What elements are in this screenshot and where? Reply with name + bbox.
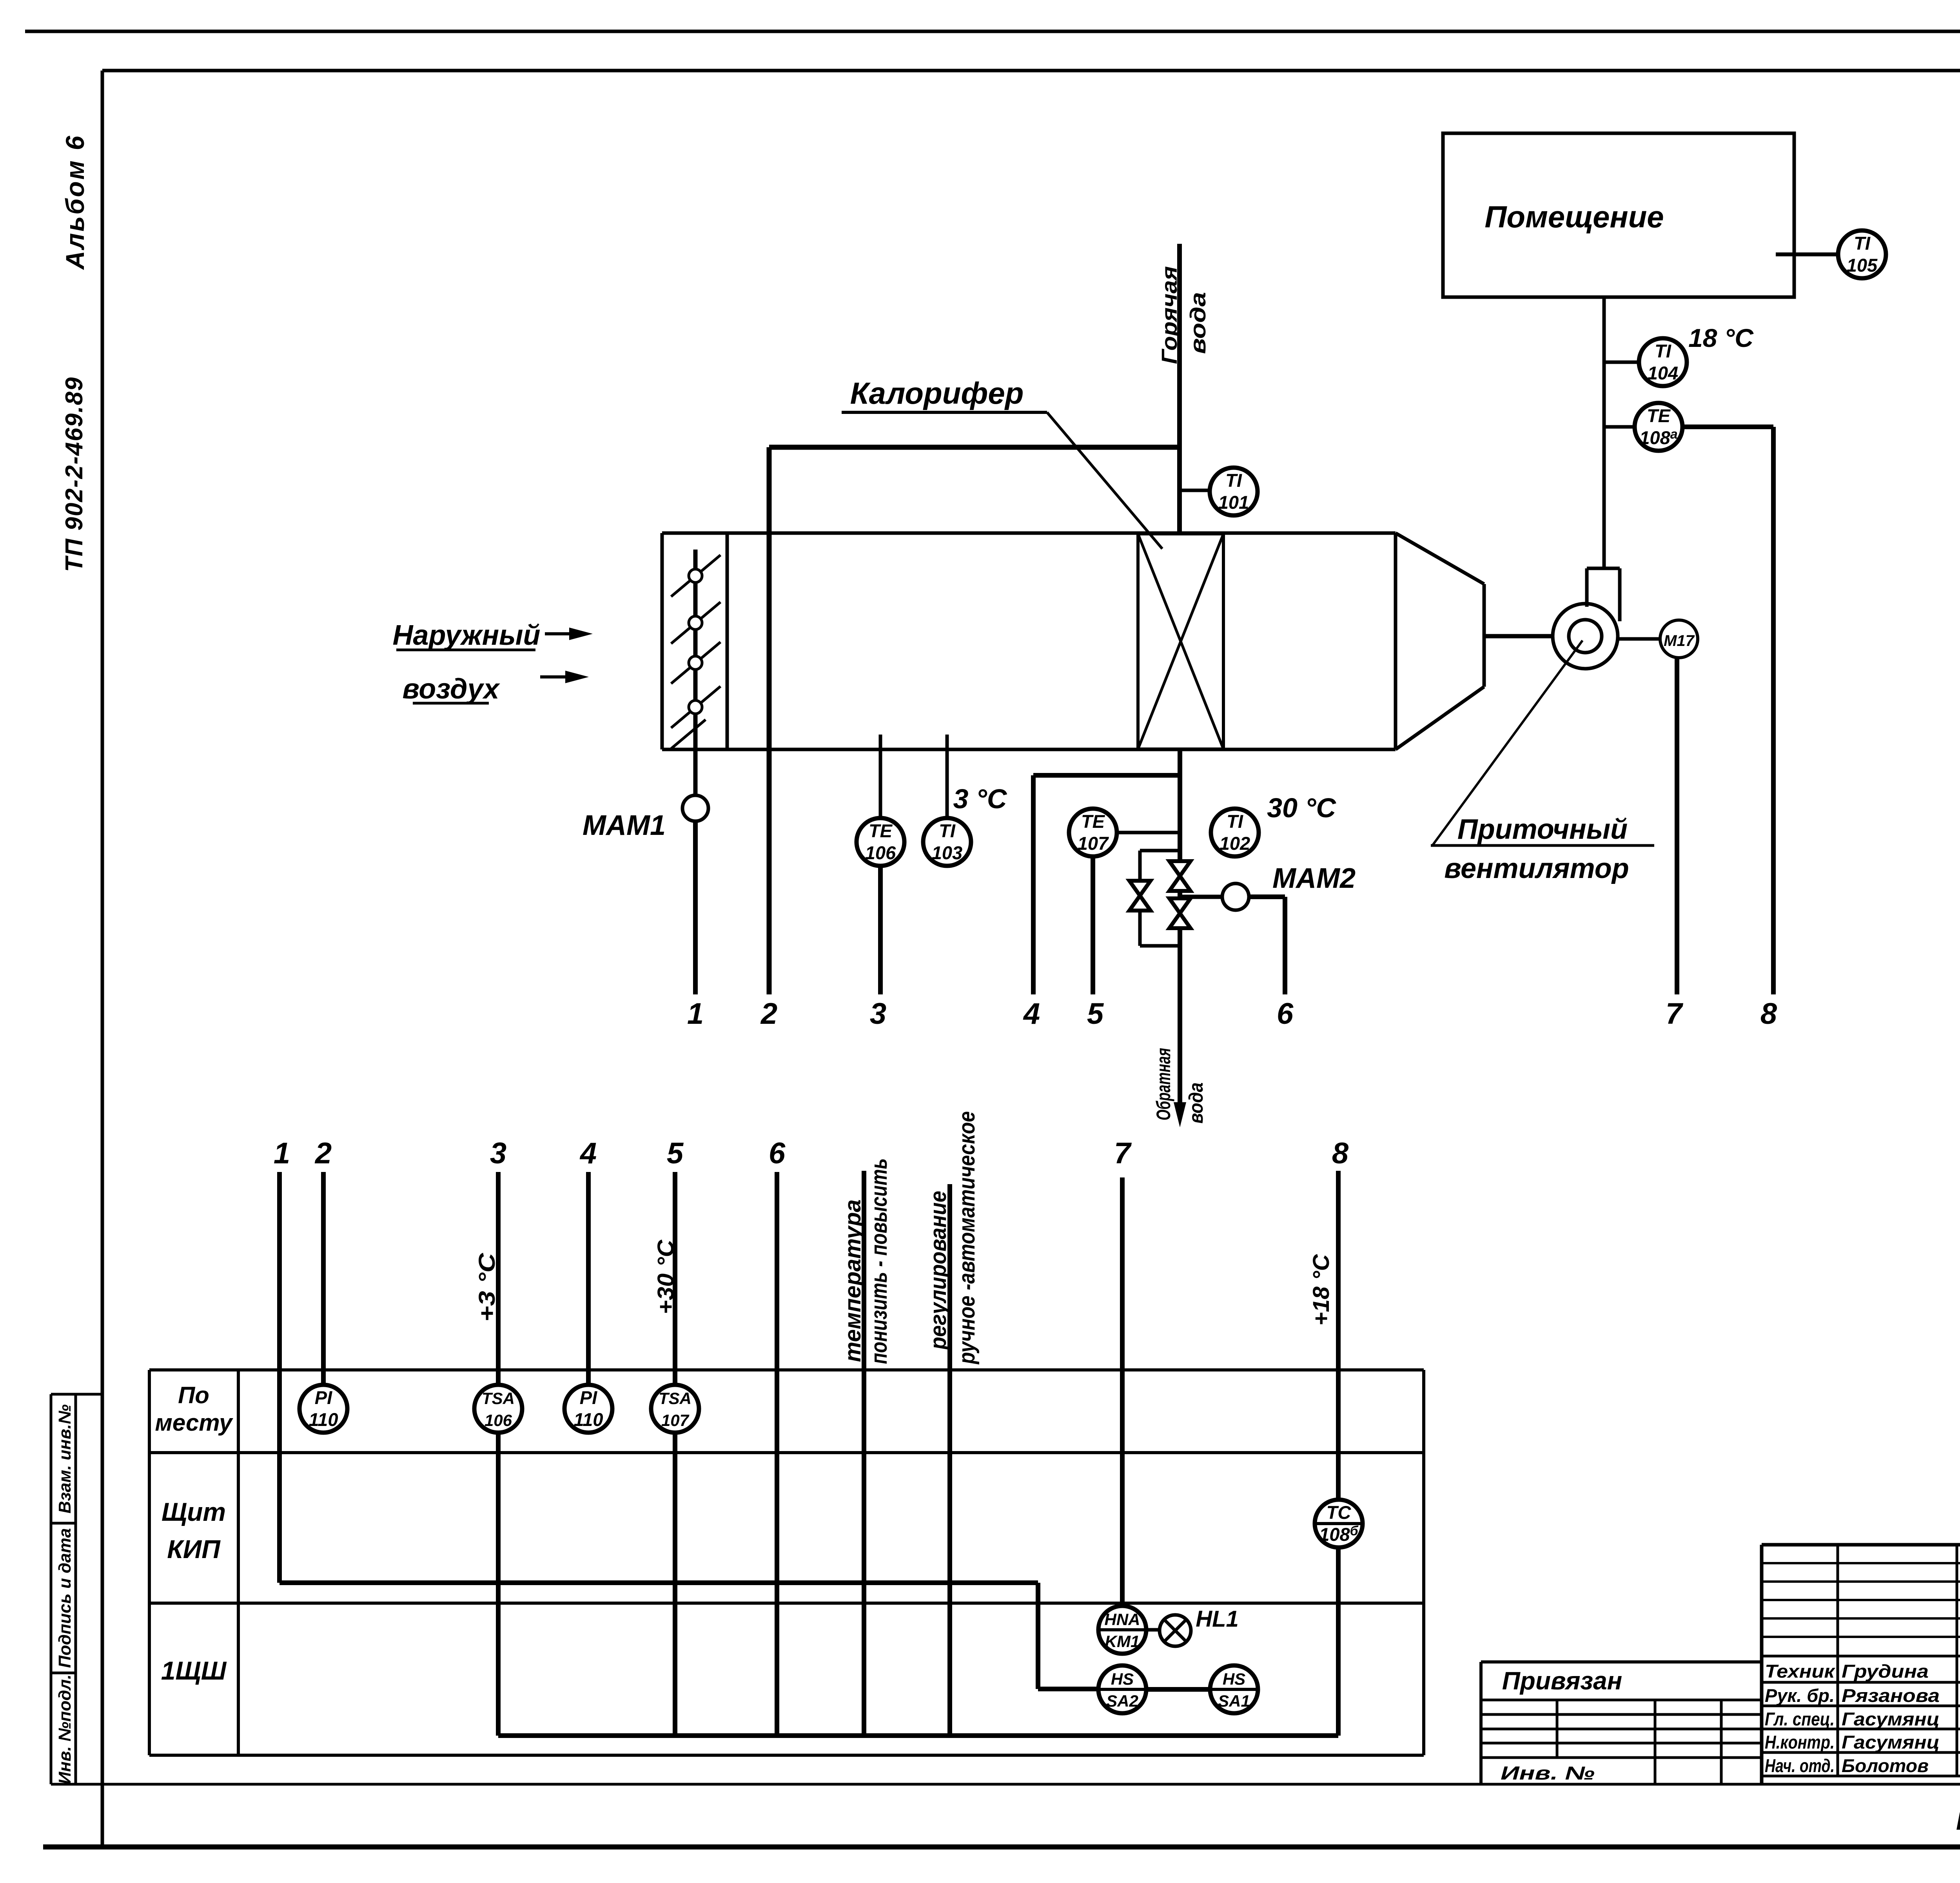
- svg-text:TI: TI: [1227, 811, 1243, 832]
- svg-text:107: 107: [661, 1411, 690, 1429]
- arrow: outside air lower: [540, 675, 565, 678]
- hot water pipe (Горячая вода): [1177, 244, 1182, 533]
- svg-text:КИП: КИП: [167, 1535, 221, 1564]
- fan (centrifugal): [1553, 568, 1620, 669]
- control valve lower (supply): [1169, 898, 1191, 928]
- svg-text:вода: вода: [1185, 292, 1210, 354]
- instrument TE106: [857, 818, 904, 866]
- instrument TI102: [1211, 809, 1259, 856]
- svg-text:SA1: SA1: [1218, 1692, 1250, 1710]
- svg-text:ручное -автоматическое: ручное -автоматическое: [954, 1111, 980, 1365]
- instrument TSA106: [474, 1385, 522, 1433]
- svg-text:Помещение: Помещение: [1485, 200, 1664, 234]
- svg-text:Наружный: Наружный: [392, 620, 540, 651]
- svg-text:4: 4: [1023, 997, 1040, 1030]
- svg-text:МАМ1: МАМ1: [583, 810, 666, 841]
- louver blade 3: [671, 642, 720, 684]
- svg-text:Н.контр.: Н.контр.: [1765, 1732, 1835, 1752]
- svg-text:6: 6: [1277, 997, 1294, 1030]
- svg-text:TSA: TSA: [659, 1389, 691, 1408]
- wire line 5 upper: [673, 1172, 677, 1385]
- louver blade 5 (partial): [671, 720, 706, 749]
- lower dividing rule: [51, 1783, 1960, 1786]
- svg-text:4: 4: [579, 1137, 597, 1170]
- svg-text:PI: PI: [580, 1387, 597, 1408]
- louver blade 1: [671, 555, 720, 597]
- svg-text:Техник: Техник: [1765, 1661, 1835, 1682]
- svg-text:106: 106: [865, 842, 896, 863]
- svg-text:110: 110: [574, 1409, 603, 1430]
- TI101 connector: [1180, 489, 1210, 492]
- line 3 drop from TE106: [878, 866, 883, 994]
- svg-text:Горячая: Горячая: [1157, 266, 1181, 364]
- duct outlet cone: [1394, 533, 1397, 749]
- svg-text:Привязан: Привязан: [1502, 1667, 1622, 1695]
- TI103 probe line: [946, 735, 949, 818]
- svg-text:KM1: KM1: [1105, 1632, 1140, 1651]
- svg-text:106: 106: [485, 1411, 512, 1429]
- svg-text:TSA: TSA: [482, 1389, 515, 1408]
- wire line 6: [775, 1172, 779, 1736]
- instrument TSA107: [651, 1385, 699, 1433]
- svg-text:2: 2: [760, 997, 777, 1030]
- svg-text:Нач. отд.: Нач. отд.: [1765, 1755, 1835, 1776]
- svg-text:8: 8: [1760, 997, 1777, 1030]
- svg-text:TE: TE: [1647, 405, 1671, 426]
- margin strip top: [51, 1393, 102, 1396]
- svg-text:5: 5: [667, 1137, 684, 1170]
- underline Наружный: [396, 649, 535, 651]
- instrument TI101: [1210, 468, 1258, 515]
- svg-text:104: 104: [1648, 363, 1678, 383]
- svg-text:вода: вода: [1185, 1083, 1207, 1124]
- line 4 horizontal tap: [1033, 773, 1180, 778]
- svg-text:HL1: HL1: [1196, 1606, 1239, 1632]
- svg-text:регулирование: регулирование: [926, 1191, 951, 1350]
- svg-text:110: 110: [309, 1409, 338, 1430]
- svg-text:TI: TI: [1854, 233, 1871, 254]
- fan-motor link: [1618, 637, 1660, 641]
- wire line 1 horizontal: [279, 1580, 1038, 1585]
- line 2 horizontal run: [769, 445, 1180, 450]
- svg-text:+18 °C: +18 °C: [1308, 1254, 1334, 1326]
- control valve upper (supply): [1169, 861, 1191, 891]
- svg-text:Взам. инв.№: Взам. инв.№: [55, 1404, 74, 1513]
- wire line 8 upper: [1336, 1171, 1341, 1498]
- line 8 horizontal run: [1682, 424, 1773, 429]
- line 8 vertical drop: [1771, 427, 1776, 994]
- louver blade 2: [671, 602, 720, 644]
- margin strip divider 1: [51, 1522, 76, 1525]
- svg-text:7: 7: [1114, 1137, 1132, 1170]
- supply duct riser: [1602, 297, 1606, 568]
- frame top: [102, 69, 1960, 73]
- svg-text:+30 °C: +30 °C: [653, 1239, 679, 1314]
- svg-text:понизить - повысить: понизить - повысить: [866, 1158, 892, 1364]
- svg-text:Альбом 6: Альбом 6: [60, 134, 89, 270]
- TI104 connector: [1604, 361, 1639, 364]
- MAM2 actuator link: [1180, 895, 1223, 899]
- svg-text:Обратная: Обратная: [1152, 1048, 1174, 1121]
- duct bottom edge: [662, 748, 1396, 751]
- title block grid: [1762, 1545, 1960, 1784]
- instrument TE107: [1069, 809, 1117, 856]
- svg-text:По: По: [178, 1382, 209, 1408]
- svg-text:7: 7: [1666, 997, 1684, 1030]
- svg-text:TI: TI: [1225, 470, 1242, 491]
- TI105 connector: [1776, 252, 1838, 256]
- svg-text:Гасумянц: Гасумянц: [1842, 1709, 1940, 1729]
- relay HNA/KM1: [1098, 1606, 1146, 1654]
- svg-text:вентилятор: вентилятор: [1444, 853, 1629, 884]
- instrument TI105: [1838, 230, 1886, 278]
- bypass valve: [1129, 881, 1151, 911]
- margin strip left: [50, 1394, 53, 1784]
- wire temperature command: [862, 1171, 866, 1736]
- wire line 4: [586, 1172, 591, 1385]
- return water pipe (Обратная вода): [1178, 749, 1182, 1115]
- svg-text:101: 101: [1218, 492, 1249, 513]
- TE106 probe line: [879, 735, 882, 818]
- svg-text:TE: TE: [869, 820, 893, 841]
- svg-text:Калорифер: Калорифер: [850, 376, 1024, 410]
- lamp HL1: [1160, 1615, 1191, 1646]
- bypass pipe: [1140, 849, 1180, 853]
- svg-text:месту: месту: [155, 1410, 233, 1436]
- wire line 1 down to HS: [1036, 1583, 1040, 1689]
- svg-text:18 °С: 18 °С: [1688, 323, 1754, 352]
- switch HS/SA1: [1210, 1665, 1258, 1713]
- svg-text:PI: PI: [315, 1387, 332, 1408]
- line 4 vertical drop: [1031, 775, 1036, 994]
- line 1 lower drop: [693, 821, 698, 994]
- svg-text:Инв. №: Инв. №: [1501, 1763, 1595, 1784]
- instrument TI103: [923, 818, 971, 866]
- svg-text:ТП 902-2-469.89: ТП 902-2-469.89: [61, 377, 88, 572]
- svg-text:Рук. бр.: Рук. бр.: [1765, 1685, 1835, 1706]
- svg-text:Гл. спец.: Гл. спец.: [1765, 1709, 1835, 1729]
- svg-text:2: 2: [314, 1137, 332, 1170]
- instrument PI110 (line2): [299, 1385, 347, 1433]
- svg-text:Рязанова: Рязанова: [1842, 1685, 1940, 1706]
- svg-text:Щит: Щит: [162, 1497, 226, 1526]
- wire line 2: [321, 1172, 326, 1385]
- svg-text:TE: TE: [1081, 811, 1105, 832]
- instrument TC108b: [1315, 1500, 1363, 1547]
- svg-text:1: 1: [687, 997, 704, 1030]
- svg-text:3: 3: [490, 1137, 506, 1170]
- wire line 7 to KM1: [1120, 1177, 1125, 1605]
- wire line 3 upper: [496, 1172, 501, 1385]
- margin strip divider 2: [51, 1672, 76, 1674]
- instrument TE108a: [1635, 403, 1682, 451]
- svg-text:TI: TI: [1655, 341, 1671, 361]
- svg-text:Гасумянц: Гасумянц: [1842, 1732, 1940, 1752]
- wire line 3 lower: [496, 1433, 501, 1736]
- svg-text:105: 105: [1847, 255, 1878, 276]
- svg-text:HNA: HNA: [1105, 1610, 1140, 1629]
- duct top edge: [662, 532, 1396, 535]
- line 7 drop from M17: [1675, 658, 1679, 994]
- svg-text:+3 °C: +3 °C: [474, 1253, 500, 1322]
- line 6 horizontal run: [1249, 894, 1285, 899]
- SA2-SA1 link: [1147, 1687, 1210, 1692]
- svg-text:3 °С: 3 °С: [953, 784, 1007, 814]
- louver blade 4: [671, 686, 720, 728]
- KM1 to lamp link: [1147, 1628, 1160, 1632]
- location table: [149, 1370, 1424, 1755]
- wire regulation command: [947, 1184, 952, 1736]
- svg-text:Инв. №подл.: Инв. №подл.: [55, 1674, 74, 1784]
- fan inlet connector: [1484, 634, 1553, 639]
- svg-text:6: 6: [769, 1137, 786, 1170]
- svg-text:1ЩШ: 1ЩШ: [161, 1656, 227, 1685]
- heater coil box with X: [1138, 534, 1223, 749]
- damper rod (line 1 upper): [693, 550, 698, 796]
- wire line 1 drop: [277, 1172, 282, 1583]
- svg-text:107: 107: [1078, 833, 1109, 854]
- svg-text:3: 3: [870, 997, 886, 1030]
- attachment table Привязан: [1481, 1662, 1762, 1784]
- svg-text:МАМ2: МАМ2: [1272, 863, 1356, 894]
- svg-text:М17: М17: [1664, 632, 1695, 649]
- wire line 5 lower: [673, 1433, 677, 1736]
- duct louver partition: [726, 533, 729, 749]
- svg-text:Копировал: Копировал: [1956, 1807, 1960, 1835]
- wire line 8 lower: [1336, 1549, 1341, 1736]
- sheet outer top rule: [25, 30, 1960, 33]
- label: Приточный вентилятор with leader: [1432, 640, 1583, 845]
- instrument PI110 (line4): [564, 1385, 612, 1433]
- svg-text:103: 103: [932, 842, 962, 863]
- svg-text:HS: HS: [1223, 1670, 1245, 1688]
- return pipe arrowhead: [1174, 1102, 1186, 1127]
- svg-text:8: 8: [1332, 1137, 1349, 1170]
- wire line 1 to HS SA2: [1038, 1687, 1098, 1691]
- svg-text:Приточный: Приточный: [1457, 814, 1628, 845]
- line 6 vertical drop: [1283, 897, 1287, 994]
- svg-text:Болотов: Болотов: [1842, 1755, 1929, 1776]
- line 2 vertical drop: [767, 447, 772, 994]
- motor M17 circle: [1660, 620, 1698, 658]
- room box Помещение: [1443, 133, 1794, 297]
- TE107 connector: [1117, 831, 1180, 834]
- arrow: outside air upper: [545, 632, 569, 635]
- svg-text:30 °С: 30 °С: [1267, 793, 1336, 823]
- margin strip right: [74, 1394, 77, 1784]
- svg-text:SA2: SA2: [1106, 1692, 1138, 1710]
- svg-text:TC: TC: [1327, 1502, 1352, 1523]
- svg-text:воздух: воздух: [403, 673, 501, 705]
- svg-text:TI: TI: [939, 820, 956, 841]
- TE108a connector: [1604, 425, 1635, 429]
- frame left: [101, 71, 104, 1847]
- svg-text:Грудина: Грудина: [1842, 1661, 1929, 1682]
- svg-text:температура: температура: [840, 1199, 866, 1362]
- line 5 drop from TE107: [1091, 856, 1095, 994]
- svg-text:1: 1: [274, 1137, 290, 1170]
- actuator MAM1 circle: [682, 795, 708, 821]
- svg-text:5: 5: [1087, 997, 1104, 1030]
- svg-text:HS: HS: [1111, 1670, 1134, 1688]
- wire bottom bus: [498, 1733, 1338, 1738]
- switch HS/SA2: [1098, 1665, 1146, 1713]
- svg-text:Подпись и дата: Подпись и дата: [55, 1528, 74, 1668]
- svg-text:102: 102: [1220, 833, 1250, 854]
- actuator MAM2 circle: [1222, 883, 1249, 910]
- instrument TI104: [1639, 338, 1687, 386]
- duct left edge: [661, 533, 664, 749]
- underline воздух: [413, 702, 489, 705]
- sheet bottom rule: [43, 1845, 1960, 1850]
